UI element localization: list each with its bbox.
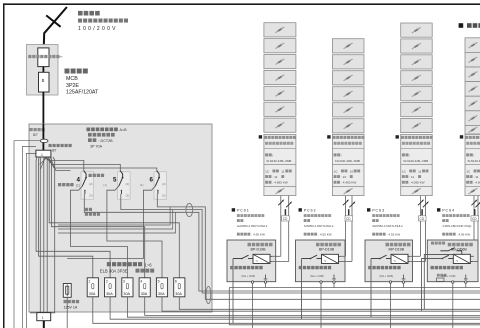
transfer switch 4 input wire xyxy=(84,171,86,178)
svg-text:: 4.95 KW: : 4.95 KW xyxy=(251,233,265,237)
label: PCS 1 block xyxy=(232,208,235,211)
svg-text:1: 1 xyxy=(88,279,90,283)
svg-text:XLN130-445L-XMB: XLN130-445L-XMB xyxy=(266,159,291,163)
wire meter to MCB xyxy=(42,67,44,73)
wire VT to 1-phase outlet box b xyxy=(43,157,45,313)
svg-text:4: 4 xyxy=(140,279,142,283)
inverter U1 title xyxy=(248,243,252,247)
PV module string 1 cell 4 xyxy=(264,70,296,84)
AC bus line upper 1 left drop xyxy=(229,288,480,325)
wire CT to VT box xyxy=(42,143,44,151)
transfer switch 4 blade xyxy=(82,178,86,187)
label: floor heating circuits xyxy=(85,208,88,211)
transfer switch 6 input wire xyxy=(157,171,159,178)
inverter U1 enclosure xyxy=(227,240,276,282)
PV string 3 model label xyxy=(402,153,405,156)
smart meter M xyxy=(38,48,49,67)
svg-text:5: 5 xyxy=(158,279,160,283)
PV module string 1 cell 2 xyxy=(264,39,296,53)
VT box xyxy=(36,150,51,157)
title: solar power generation facility xyxy=(459,23,464,28)
PV string 1 conductor slash marks xyxy=(278,200,283,205)
svg-text:: 4.095 KW: : 4.095 KW xyxy=(409,181,424,185)
svg-text:~: ~ xyxy=(324,258,327,263)
svg-text:CD: CD xyxy=(419,217,424,221)
inverter U3 AC output wire xyxy=(370,259,372,318)
transfer switch 4 output wire a xyxy=(70,186,127,278)
service drop wire (incoming LV line) xyxy=(44,7,67,49)
inverter U3 enclosure xyxy=(365,240,413,282)
inverter U4 standalone switch xyxy=(440,250,448,252)
wire fan crossing under VT box 2 xyxy=(44,157,52,162)
svg-text:(NA + N1B): (NA + N1B) xyxy=(442,274,456,278)
svg-text:1: 1 xyxy=(41,153,43,157)
transfer switch 5 contact b tick xyxy=(120,191,122,194)
svg-text:P C S 4: P C S 4 xyxy=(442,209,454,213)
inverter U2 title xyxy=(316,243,320,247)
svg-text:(3): (3) xyxy=(162,194,166,198)
wire aux feed bundle 3 xyxy=(58,212,176,233)
svg-text:XLN130-445L-XMB: XLN130-445L-XMB xyxy=(403,159,428,163)
svg-text:: DCT2B: : DCT2B xyxy=(99,139,114,143)
inverter U4 battery outlet box xyxy=(437,278,445,281)
inverter U2 disconnect switch xyxy=(317,258,322,260)
label: PCS 4 block xyxy=(437,208,440,211)
inverter U4 DC input wires xyxy=(470,255,474,257)
PV string 1 conduit arrow xyxy=(284,209,286,215)
inverter U4 terminal A xyxy=(452,281,454,283)
PV module string 3 cell 3 xyxy=(401,55,433,69)
PV string 2 model label xyxy=(334,153,337,156)
PV string 4 model label xyxy=(466,153,469,156)
transfer switch 5 input wire xyxy=(120,171,122,178)
inverter U3 protection relay label xyxy=(368,266,371,269)
svg-text:11: 11 xyxy=(418,169,421,173)
inverter U1 disconnect switch xyxy=(248,258,253,260)
transfer switch 6 blade xyxy=(155,178,159,187)
1-phase outlet box xyxy=(37,313,51,321)
wire VT down-feed 5 xyxy=(30,157,55,313)
smart meter enclosure xyxy=(27,45,59,96)
svg-text:3P 70A: 3P 70A xyxy=(90,144,103,148)
PV string 3 conductor slash marks xyxy=(418,200,423,205)
svg-text:BP-D19B: BP-D19B xyxy=(319,248,335,252)
breaker ELB3 output wire to AC bus xyxy=(127,297,480,317)
svg-text:6: 6 xyxy=(150,176,154,183)
svg-text:(NA + N1B): (NA + N1B) xyxy=(242,274,256,278)
svg-text:: 4.450 KW: : 4.450 KW xyxy=(341,181,356,185)
PV string 4 bottom module cell xyxy=(468,188,477,194)
PV string 1 positive wire xyxy=(280,196,282,257)
svg-text:30A: 30A xyxy=(123,292,130,296)
inverter U3 DC input wires xyxy=(410,255,420,257)
PV string 3 conduit label CD xyxy=(418,216,426,221)
drawing frame left border xyxy=(3,3,5,328)
breaker ELB3 box xyxy=(122,278,133,297)
inverter U1 terminal A xyxy=(251,281,253,283)
wire CT branch to left margin xyxy=(14,141,40,328)
svg-text:: 4.55 KW: : 4.55 KW xyxy=(318,233,332,237)
breaker ELB1 output wire to AC bus xyxy=(93,297,480,324)
label: PV circuit (1) xyxy=(58,183,61,186)
PV string 2 conduit arrow xyxy=(348,209,350,215)
svg-text:: 11: : 11 xyxy=(474,175,479,179)
transfer switch 5 output wire b xyxy=(121,194,480,293)
breaker ELB5 output wire to AC bus xyxy=(162,297,480,311)
svg-text:8/7: 8/7 xyxy=(33,133,38,137)
inverter U3 terminal A xyxy=(389,281,391,283)
PV module string 3 cell 7 xyxy=(401,118,433,132)
PV string 2 conduit label CD xyxy=(345,216,353,221)
inverter U2 protection relay label xyxy=(299,266,302,269)
inverter U4 enclosure xyxy=(427,240,478,282)
PV string 4 positive wire xyxy=(473,196,475,257)
label: CT sensor xyxy=(30,128,33,131)
PV string 1 maker label xyxy=(259,135,262,138)
PV string 3 positive wire xyxy=(420,196,422,257)
label: smart meter xyxy=(28,55,31,58)
svg-text:(2): (2) xyxy=(126,182,130,186)
wire VT down-feed 4 xyxy=(51,157,145,278)
outlet box outgoing heavy wire xyxy=(43,321,45,328)
breaker ELB2 box xyxy=(105,278,116,297)
label: auto transfer switch A=B, Nitto, DCT2B, 3P 70A xyxy=(87,128,91,132)
inverter U3 terminal B with earth mark xyxy=(402,281,404,283)
PV module string 3 cell 5 xyxy=(401,87,433,101)
svg-text:/: / xyxy=(409,153,410,157)
PV module string 2 cell 4 xyxy=(332,87,364,101)
service entry cross mark xyxy=(46,15,60,26)
wire aux feed bundle 2 xyxy=(58,210,173,230)
svg-text:/: / xyxy=(272,153,273,157)
PV string 1 conduit label CD xyxy=(282,216,290,221)
svg-text:(1): (1) xyxy=(140,183,144,187)
label: VT (panel mounted) xyxy=(49,144,52,147)
svg-text:3P2E: 3P2E xyxy=(66,83,79,89)
inverter U3 disconnect switch xyxy=(386,258,391,260)
inverter U4 title xyxy=(448,243,452,247)
inverter U4 terminal B with earth mark xyxy=(465,281,467,283)
svg-text:11: 11 xyxy=(281,169,284,173)
PV module string 1 cell 5 xyxy=(264,86,296,100)
PV string 2 info box xyxy=(332,134,364,195)
svg-text:: 4.55 KW: : 4.55 KW xyxy=(387,233,401,237)
fuse F1 output wire xyxy=(66,297,68,328)
svg-text:CD: CD xyxy=(346,217,351,221)
PV module string 3 cell 2 xyxy=(401,39,433,53)
inverter U2 converter symbol xyxy=(322,254,339,263)
svg-text:(1): (1) xyxy=(103,183,107,187)
wire fan VT to feeder bus A xyxy=(44,157,84,171)
PV module string 4 cell 1 xyxy=(465,38,480,53)
svg-text:: 10: : 10 xyxy=(341,175,346,179)
wire VT to 1-phase outlet box a xyxy=(39,157,41,313)
wire fan crossing under VT box 3 xyxy=(41,157,46,169)
svg-text:MP-D19B: MP-D19B xyxy=(389,248,405,252)
wire VT down-feed 3 xyxy=(49,157,179,278)
wire VT down-feed 1 xyxy=(36,157,110,278)
PV module string 4 cell 6 xyxy=(465,111,480,126)
inverter U4 protection relay label xyxy=(431,266,434,269)
label: PCS 3 rated output xyxy=(372,233,375,236)
inverter U4 disconnect switch xyxy=(448,258,453,260)
PV module string 2 cell 1 xyxy=(332,39,364,53)
transfer switch 6 contact b tick xyxy=(157,191,159,194)
PV string 1 info box xyxy=(264,134,296,195)
PV string 3 info box xyxy=(401,134,433,195)
svg-text:~: ~ xyxy=(456,258,459,263)
breaker ELB4 output wire to AC bus xyxy=(145,297,480,316)
PV string 4 conduit arrow xyxy=(474,209,476,215)
breaker ELB5 box xyxy=(156,278,167,297)
svg-text:30A: 30A xyxy=(175,292,182,296)
drawing frame top border xyxy=(3,3,480,5)
transfer switch 4 contact b tick xyxy=(84,191,86,194)
svg-text:XLN130-445L-XMB: XLN130-445L-XMB xyxy=(467,159,480,163)
wire VT branch to left margin xyxy=(23,146,37,328)
PV module string 4 cell 4 xyxy=(465,82,480,97)
transfer switch 6 output wire a xyxy=(67,186,155,258)
label: PCS 4 rated output xyxy=(442,233,445,236)
cable group ellipse on panel output bundle xyxy=(206,286,211,303)
svg-text:125AF/120AT: 125AF/120AT xyxy=(66,90,99,96)
label: PCS 2 block xyxy=(299,208,302,211)
PV string 2 negative wire xyxy=(351,196,353,262)
breaker ELB6 output wire to AC bus xyxy=(179,297,480,310)
svg-text:GAN550-4.0SKTL/NHL2: GAN550-4.0SKTL/NHL2 xyxy=(237,224,268,228)
breaker ELB2 output wire to AC bus xyxy=(110,297,480,319)
svg-text:CD: CD xyxy=(472,217,477,221)
PV module string 1 cell 6 xyxy=(264,102,296,116)
svg-text:4: 4 xyxy=(77,176,81,183)
PV module string 1 cell 1 xyxy=(264,23,296,37)
svg-text:8/7: 8/7 xyxy=(52,149,57,153)
inverter U1 DC input wires xyxy=(272,255,281,257)
svg-text:1: 1 xyxy=(42,316,44,320)
label: fuse 125V 1A xyxy=(64,300,67,303)
svg-text:~: ~ xyxy=(393,258,396,263)
PV string 3 bottom module cell xyxy=(412,188,421,194)
svg-text:(1): (1) xyxy=(76,183,80,187)
label: main switch MCB 3P2E 125AF/120AT xyxy=(65,69,70,74)
svg-text:P C S 3: P C S 3 xyxy=(372,209,384,213)
distribution panel enclosure xyxy=(29,124,212,312)
svg-text:3: 3 xyxy=(123,279,125,283)
transfer switch 5 blade xyxy=(119,178,123,187)
fuse F1 box xyxy=(63,284,71,298)
PV string 4 conductor slash marks xyxy=(471,200,476,205)
svg-text:MCB: MCB xyxy=(66,76,78,82)
PV module string 3 cell 4 xyxy=(401,71,433,85)
inverter U4 standalone-mode label xyxy=(431,242,434,245)
breaker ELB1 box xyxy=(87,278,98,297)
svg-text:30A: 30A xyxy=(141,292,148,296)
svg-text:(2): (2) xyxy=(162,182,166,186)
svg-text:: 4.895 KW: : 4.895 KW xyxy=(273,181,288,185)
svg-text:30A: 30A xyxy=(89,292,96,296)
inverter U4 AC output wire a xyxy=(422,259,443,312)
inverter U1 AC output wire xyxy=(232,259,234,324)
inverter U3 converter symbol xyxy=(391,254,408,263)
PV module string 4 cell 5 xyxy=(465,96,480,111)
PV string 1 negative wire xyxy=(288,196,290,262)
transfer switch 6 output wire b xyxy=(157,194,480,299)
svg-text:~: ~ xyxy=(255,258,258,263)
main breaker MCB xyxy=(39,72,50,92)
svg-text:30A: 30A xyxy=(106,292,113,296)
svg-text:/: / xyxy=(341,153,342,157)
PV module string 2 cell 6 xyxy=(332,119,364,133)
PV string 4 maker label xyxy=(460,135,463,138)
label: normally commercial (switch 4) xyxy=(89,174,92,177)
wire VT to 1-phase outlet box c xyxy=(46,157,48,313)
svg-text:1~6: 1~6 xyxy=(145,262,153,267)
PV module string 4 cell 7 xyxy=(465,125,480,134)
PV string 4 conduit label CD xyxy=(471,216,479,221)
PV string 2 conductor slash marks xyxy=(343,200,348,205)
wire VT second branch left xyxy=(26,153,36,328)
wire aux feed bundle 1 xyxy=(58,207,170,225)
svg-text:BP-D19B: BP-D19B xyxy=(251,248,267,252)
PV string 4 info box xyxy=(465,134,480,195)
PV string 2 bottom module cell xyxy=(344,188,353,194)
PV string 2 positive wire xyxy=(345,196,347,257)
svg-text:ELB 30A 3P3E: ELB 30A 3P3E xyxy=(100,269,128,274)
breaker ELB4 box xyxy=(139,278,150,297)
PV module string 1 cell 7 xyxy=(264,118,296,132)
transfer switch 6 unit box xyxy=(154,172,167,199)
wire fan VT to feeder bus C xyxy=(48,157,157,171)
inverter U2 DC input wires xyxy=(341,255,346,257)
inverter U1 protection relay label xyxy=(230,266,233,269)
CT ring xyxy=(40,139,48,142)
svg-text:(3): (3) xyxy=(126,194,130,198)
svg-text:6: 6 xyxy=(175,279,177,283)
svg-text:P C S 2: P C S 2 xyxy=(304,209,316,213)
AC bus line upper 1 xyxy=(229,287,480,289)
svg-text:30A: 30A xyxy=(158,292,165,296)
PV string 3 maker label xyxy=(396,135,399,138)
label: LV lighting service 1phi3 100/200V xyxy=(78,11,83,16)
svg-text:B: B xyxy=(42,78,45,83)
svg-text:4.3DN-LBD-NNP-XSQL: 4.3DN-LBD-NNP-XSQL xyxy=(442,224,472,228)
svg-text:SGN550-4.0SKTL/NHL2: SGN550-4.0SKTL/NHL2 xyxy=(372,224,403,228)
svg-text:10: 10 xyxy=(350,169,354,173)
PV string 4 negative wire xyxy=(477,196,479,262)
transfer switch 5 output wire a xyxy=(107,186,162,278)
svg-text:(NA + N1B): (NA + N1B) xyxy=(380,274,394,278)
fuse F1 element xyxy=(66,286,69,294)
PV module string 2 cell 3 xyxy=(332,71,364,85)
svg-text:125V 1A: 125V 1A xyxy=(64,306,78,310)
wire fan VT to feeder bus B xyxy=(46,157,120,171)
svg-text:: 11: : 11 xyxy=(273,175,278,179)
svg-text:100/200V: 100/200V xyxy=(78,26,118,32)
inverter U4 AC output wire b xyxy=(424,255,453,310)
inverter U2 AC output wire xyxy=(301,259,303,320)
PV module string 1 cell 3 xyxy=(264,55,296,69)
PV module string 3 cell 1 xyxy=(401,23,433,37)
cable group ellipse on switch output bundle xyxy=(186,203,193,216)
svg-text:P C S 1: P C S 1 xyxy=(237,209,249,213)
wire fan VT stub D xyxy=(50,157,70,171)
wire MCB to distribution panel xyxy=(42,92,44,124)
svg-text:5: 5 xyxy=(113,176,117,183)
inverter U3 title xyxy=(386,243,390,247)
wire VT down-feed 2 xyxy=(39,157,93,278)
svg-text:: 4.95 KW: : 4.95 KW xyxy=(457,233,471,237)
svg-text:(NA + N1B): (NA + N1B) xyxy=(310,274,324,278)
svg-text:A=B: A=B xyxy=(120,128,128,132)
inverter U2 terminal A xyxy=(320,281,322,283)
PV module string 2 cell 5 xyxy=(332,103,364,117)
inverter U1 converter symbol xyxy=(253,254,270,263)
PV module string 3 cell 6 xyxy=(401,103,433,117)
label: PCS 2 rated output xyxy=(304,233,307,236)
inverter U2 enclosure xyxy=(296,240,346,282)
PV string 3 conduit arrow xyxy=(421,209,423,215)
PV string 3 negative wire xyxy=(424,196,426,262)
inverter U1 terminal B with earth mark xyxy=(264,281,266,283)
wire fan crossing under VT box 1 xyxy=(40,157,48,165)
label: PCS 1 rated output xyxy=(237,233,240,236)
label: PCS 3 block xyxy=(367,208,370,211)
transfer switch 5 unit box xyxy=(118,172,131,199)
PV module string 4 cell 3 xyxy=(465,67,480,82)
svg-text:(3): (3) xyxy=(89,194,93,198)
PV string 2 maker label xyxy=(327,135,330,138)
transfer switch 4 unit box xyxy=(81,172,94,199)
wire main line into CT xyxy=(42,124,44,140)
svg-text:: 4.895 KW: : 4.895 KW xyxy=(474,181,480,185)
PV module string 2 cell 2 xyxy=(332,55,364,69)
inverter U4 converter symbol xyxy=(453,254,470,263)
svg-text:CD: CD xyxy=(283,217,288,221)
PV string 1 model label xyxy=(265,153,268,156)
inverter U2 terminal B with earth mark xyxy=(333,281,335,283)
PV string 1 bottom module cell xyxy=(275,188,284,194)
svg-text:XLN130-445L-XMB: XLN130-445L-XMB xyxy=(335,159,360,163)
label: interconnection breakers 1-6 xyxy=(107,262,111,266)
svg-text:/: / xyxy=(473,153,474,157)
transfer switch 4 output wire b xyxy=(84,194,480,291)
svg-text:(2): (2) xyxy=(89,182,93,186)
svg-text:SJN550-4.0SKTL/NHL2: SJN550-4.0SKTL/NHL2 xyxy=(304,224,334,228)
svg-text:: 11: : 11 xyxy=(409,175,414,179)
svg-text:2: 2 xyxy=(106,279,108,283)
PV module string 4 cell 2 xyxy=(465,52,480,67)
breaker ELB6 box xyxy=(174,278,185,297)
